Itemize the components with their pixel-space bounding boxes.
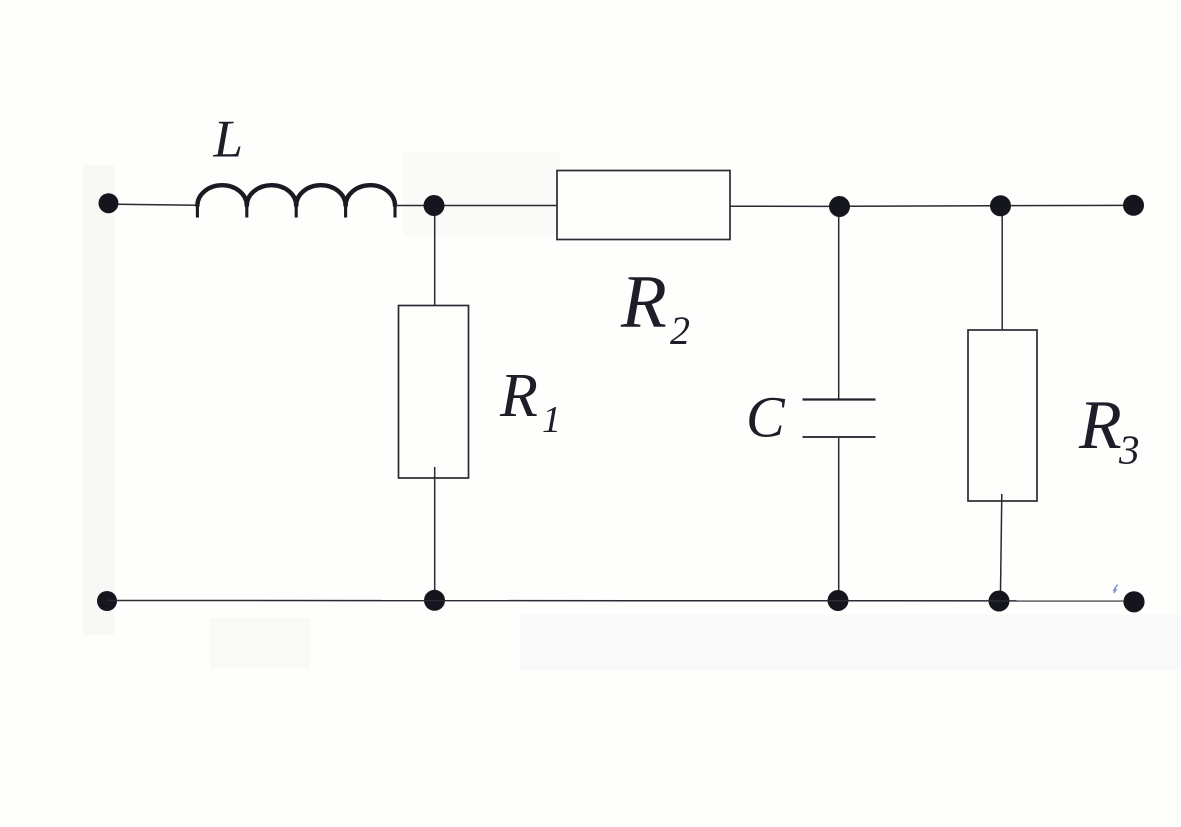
wire node C to top-right terminal (1011, 204, 1124, 206)
wire R2 to node B (730, 205, 830, 207)
svg-text:L: L (213, 111, 243, 169)
node C' (bottom junction under R3) (989, 591, 1010, 612)
wire R1 to bottom rail (434, 467, 436, 592)
inductor L (197, 185, 395, 217)
svg-text:R: R (499, 362, 538, 430)
capacitor C bottom plate (803, 436, 876, 438)
wire node A down to R1 (434, 216, 436, 312)
bottom rail wire (107, 600, 1133, 602)
wire node B down to capacitor C (838, 217, 840, 399)
node C (junction of R3) (990, 195, 1011, 216)
resistor R3 (968, 330, 1037, 501)
wire capacitor C to bottom rail (838, 438, 840, 593)
node A' (bottom junction under R1) (424, 590, 445, 611)
resistor R1 (399, 306, 469, 479)
svg-text:2: 2 (670, 308, 690, 353)
node IN+ (top-left terminal) (99, 193, 119, 213)
svg-text:R: R (620, 260, 667, 343)
node B (junction of R2, C) (829, 196, 850, 217)
svg-text:C: C (746, 385, 786, 450)
node OUT+ (top-right terminal) (1123, 195, 1144, 216)
wire node A to R2 (444, 205, 557, 207)
resistor R2 (557, 171, 730, 240)
node OUT- (bottom-right terminal) (1123, 591, 1144, 612)
wire inductor to node A (395, 205, 426, 207)
svg-text:R: R (1078, 387, 1122, 464)
wire R3 to bottom rail (1001, 494, 1002, 592)
node IN- (bottom-left terminal) (97, 591, 117, 611)
wire top-left terminal to inductor (118, 204, 197, 205)
wire node C down to R3 (1001, 216, 1003, 338)
node A (junction of L, R1, R2) (424, 195, 445, 216)
blue pen tick artifact (1113, 585, 1117, 594)
svg-text:1: 1 (542, 399, 561, 441)
wire node B to node C (850, 205, 991, 207)
node B' (bottom junction under C) (828, 590, 849, 611)
svg-text:3: 3 (1118, 427, 1140, 473)
capacitor C top plate (803, 398, 876, 400)
